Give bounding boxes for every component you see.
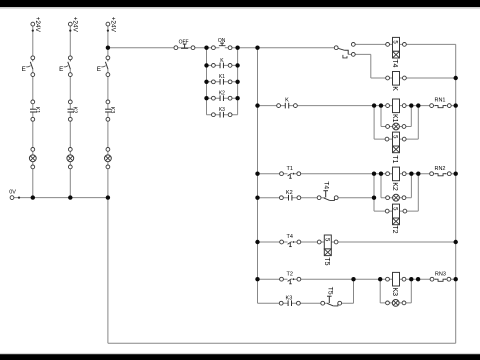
node T2 branch left [372,172,376,176]
wire K2-T4 contact row [258,197,375,199]
contact K (NO) [277,98,298,109]
svg-text:T4: T4 [322,181,329,189]
node block left bus row K2 [204,96,208,100]
wire contact-block left bus [206,48,208,115]
node RN1 at right rail [454,103,458,107]
node branch 2 to 0V rail [68,195,72,199]
timer relay coil T5 (preset 5) [317,235,338,266]
node RN2 at right rail [454,172,458,176]
contact K (seal-in row 1) [212,58,233,68]
contact T2 (timed NO) [280,271,301,284]
wire top feed rail [108,47,336,49]
wire K3 contact row riser [353,279,355,303]
contact K1 (seal-in row 2) [212,74,233,84]
node block right bus top [235,46,239,50]
node K3 lamp branch left [378,277,382,281]
svg-text:K2: K2 [219,91,225,97]
wire +24V branch 3 vertical [107,26,109,198]
node block right bus row K [235,63,239,67]
selector switch S1 (changeover) [334,43,355,58]
svg-text:K3: K3 [109,107,115,114]
svg-text:T4: T4 [286,234,292,240]
relay coil K2 [386,167,406,191]
svg-text:K1: K1 [391,114,398,123]
node block left bus row K1 [204,80,208,84]
wire K2 lamp row [381,197,411,199]
wire K2 lamp branch right [410,174,412,198]
svg-text:K3: K3 [219,107,225,113]
wire T1 row [374,138,418,140]
svg-text:K3: K3 [391,288,398,297]
wire K1 lamp branch right [410,106,412,127]
contact T4 (timed NO) [280,234,301,247]
relay coil K [386,72,407,92]
svg-text:T2: T2 [286,271,292,277]
contact RN1 [430,98,451,108]
node K3 spare junction [416,277,420,281]
contact K2 (NO) [280,190,301,201]
svg-text:T5: T5 [323,257,330,265]
wire T2 row [374,210,418,212]
node K2 lamp branch right [409,172,413,176]
lamp K2 indicator [386,194,406,201]
contact T5 (delayed) [321,287,342,306]
wire K coil row [371,77,456,79]
node block left bus row K [204,63,208,67]
node K3 rung at left rail [255,277,259,281]
node K2 contact row at left rail [255,196,259,200]
wire contact-block row y81 [207,81,238,83]
svg-text:T2: T2 [391,225,398,233]
timer relay coil T2 (preset 5) [385,204,406,234]
wire K1 lamp row [381,126,411,128]
contact K3 (NO) [279,295,300,306]
node top rail tap at branch 3 [106,46,110,50]
svg-text:K: K [285,98,289,104]
wire K3-T5 contact row [258,302,354,304]
node branch 3 to 0V rail [106,195,110,199]
node branch 1 to 0V rail [31,195,35,199]
svg-text:T1: T1 [286,166,292,172]
node block left bus top [204,46,208,50]
contact K3 (branch lamp contact) [105,100,115,121]
wire K3 lamp branch right [410,279,412,303]
wire bottom return [108,342,456,344]
lamp H3 [105,148,112,169]
svg-text:T5: T5 [326,287,333,295]
wire K2 lamp branch left [380,174,382,198]
relay coil K3 [386,272,406,296]
wire T1 branch right [417,106,419,140]
+24V supply terminal branch 3 [106,17,116,33]
node block right bus row K2 [235,96,239,100]
node K coil row at right rail [454,76,458,80]
svg-text:RN3: RN3 [435,271,446,277]
switch E1 (manual breaker) [22,56,35,77]
node K2 contact row join [372,196,376,200]
pushbutton ON (NO) [212,38,233,50]
wire contact-block right bus [237,48,239,115]
lamp K1 indicator [386,123,406,130]
svg-text:+24V: +24V [34,17,41,33]
node T2 branch right [416,172,420,176]
contact RN2 [430,166,451,176]
timer relay coil T4 (preset 5) [386,37,407,67]
node K1 lamp branch left [379,103,383,107]
lamp H2 [67,148,74,169]
node T1 branch right [416,103,420,107]
svg-text:RN2: RN2 [434,166,445,172]
node K3 lamp branch right [409,277,413,281]
switch E3 (manual breaker) [97,56,110,77]
wire right return rail [455,44,457,343]
wire 0V rail [12,197,108,199]
relay coil K1 [386,99,406,123]
node K2 rung at left rail [255,172,259,176]
svg-text:0V: 0V [9,189,16,195]
contact T4 (delayed) [317,181,338,200]
svg-text:E: E [97,66,101,73]
contact RN3 [430,271,451,281]
svg-text:K1: K1 [34,107,40,114]
wire K3 rung main [258,278,456,280]
wire T1 branch left [373,106,375,140]
wire branch 3 drop to bottom return [107,198,109,344]
wire +24V branch 1 vertical [32,26,34,198]
wire K1 lamp branch left [380,106,382,127]
+24V supply terminal branch 1 [31,17,41,33]
wire contact-block row y114 [207,114,238,116]
svg-text:K2: K2 [71,107,77,114]
wire selector upper throw to T4 [353,43,455,45]
node K1 lamp branch right [409,103,413,107]
svg-text:E: E [22,66,26,73]
lamp K3 indicator [386,300,406,307]
contact K2 (seal-in row 3) [212,91,233,101]
contact T1 (timed NO) [280,166,301,179]
svg-text:T4: T4 [391,59,398,67]
wire contact-block row y98 [207,97,238,99]
node K3 contact row top join [351,277,355,281]
svg-text:ON: ON [218,38,226,44]
wire T2 branch right [417,174,419,211]
node RN3 at right rail [454,277,458,281]
svg-text:+24V: +24V [109,17,116,33]
bottom letterbox bar [0,353,480,360]
wire contact-block row y65 [207,64,238,66]
contact K1 (branch lamp contact) [30,100,40,121]
svg-text:OFF: OFF [179,39,189,45]
wire T2 branch left [373,174,375,211]
contact K2 (branch lamp contact) [68,100,78,121]
wire +24V branch 2 vertical [69,26,71,198]
wire selector lower throw [348,53,371,55]
contact K3 (seal-in row 4) [212,107,233,117]
node K1 rung at left rail [255,103,259,107]
wire K1 rung main [258,105,456,107]
svg-text:K2: K2 [391,182,398,191]
switch E2 (manual breaker) [59,56,72,77]
lamp H1 [29,148,36,169]
node block right bus row K1 [235,80,239,84]
wire selector drop [370,54,372,78]
svg-text:K1: K1 [219,74,225,80]
node T5 rung at right rail [454,240,458,244]
svg-text:K2: K2 [286,190,293,196]
timer relay coil T1 (preset 5) [385,132,406,163]
svg-text:T1: T1 [391,155,398,163]
svg-text:+24V: +24V [72,17,79,33]
svg-text:RN1: RN1 [434,98,445,104]
node K2 lamp branch left [379,172,383,176]
+24V supply terminal branch 2 [68,17,78,33]
top letterbox bar [0,0,480,9]
svg-text:E: E [59,66,63,73]
svg-text:K: K [391,86,398,91]
0V supply terminal [9,189,20,199]
node T5 rung at left rail [255,240,259,244]
node T1 branch left [372,103,376,107]
wire K2 rung main [258,173,456,175]
wire K3 lamp row [380,302,411,304]
pushbutton OFF (NC) [174,39,195,49]
node left rail top [255,46,259,50]
wire T5 rung [258,241,456,243]
wire left control rail [257,48,259,304]
wire K3 lamp branch left [379,279,381,303]
svg-text:K3: K3 [286,295,293,301]
